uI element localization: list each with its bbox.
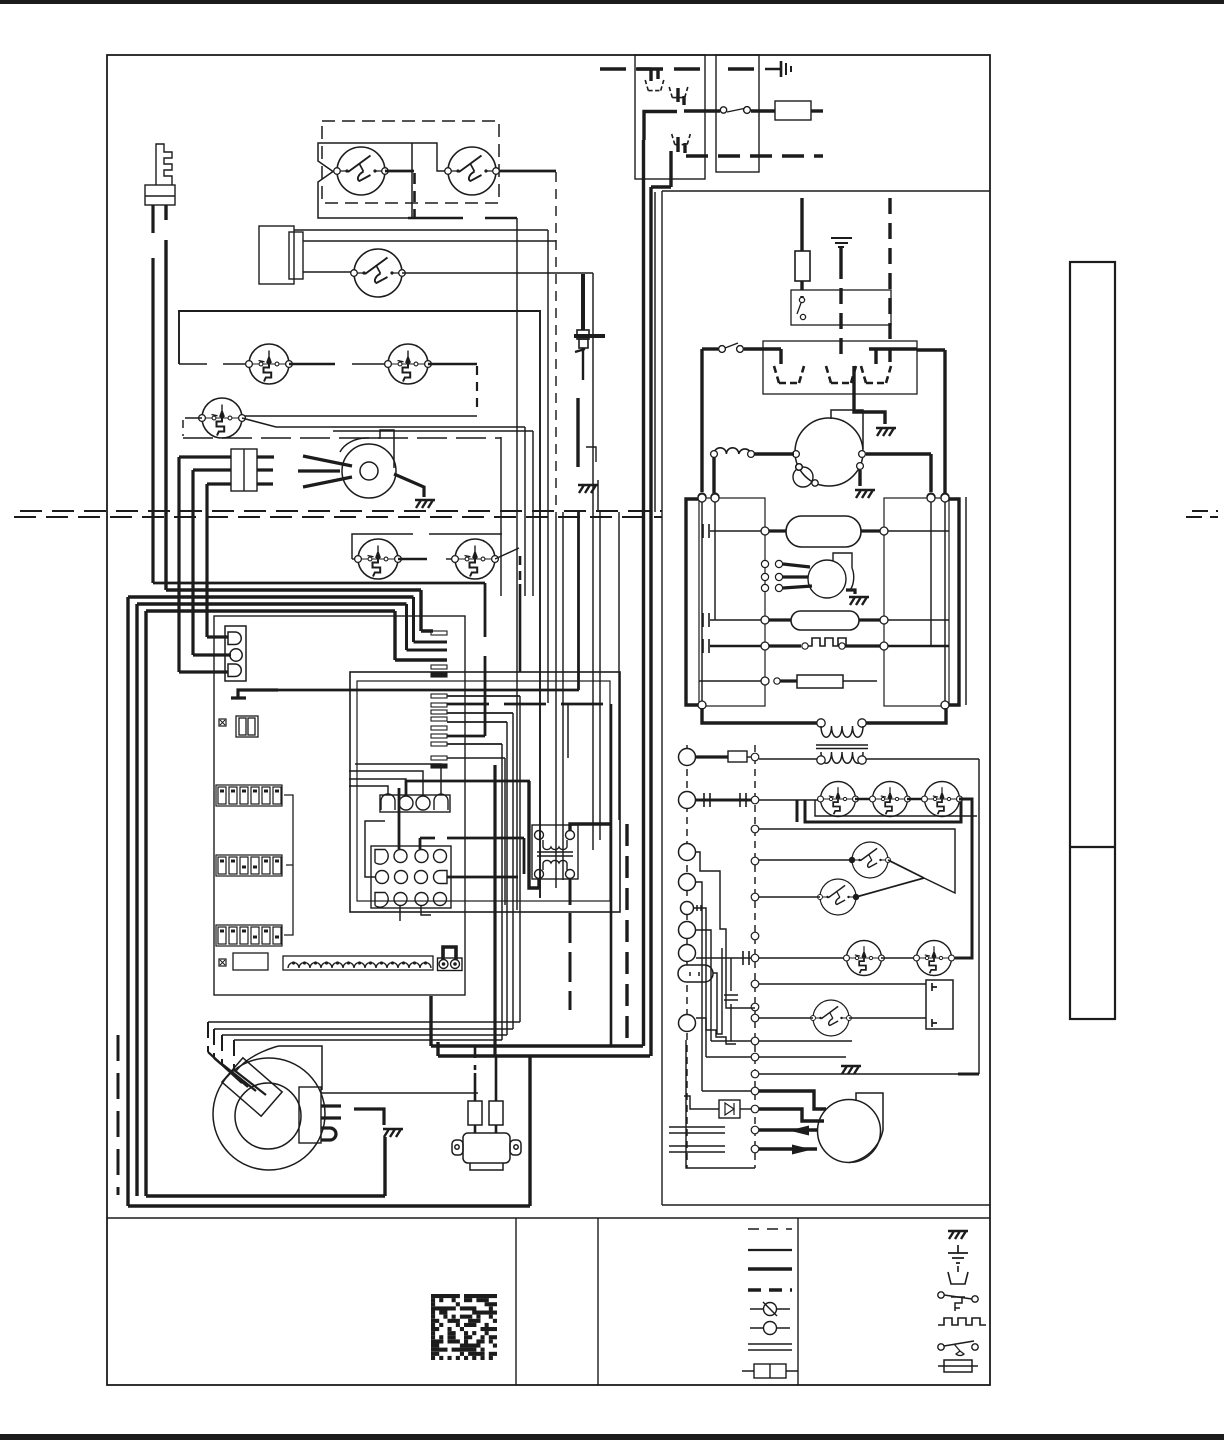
ignition module box (259, 226, 294, 284)
inner nested box (357, 681, 610, 901)
relay contact cup A1 (645, 80, 664, 91)
sensor thick left (769, 618, 791, 621)
bus wire A key1 to board (153, 583, 485, 736)
T2 primary winding (821, 726, 863, 737)
wire y416 return (244, 415, 477, 417)
aux node 2 (774, 678, 780, 684)
dashed drop x414 (413, 173, 416, 218)
pressure switch PS3 (922, 782, 963, 817)
nested thermostat wires t6 (696, 930, 751, 1041)
nested thermostat wire t8 (696, 1018, 736, 1044)
secondary right wire to bus (866, 759, 979, 1074)
x627 dashed drop (625, 824, 628, 1046)
y1074 thick tail (958, 1073, 979, 1076)
IDM2 ground (849, 597, 869, 605)
wire pin y829 (759, 829, 955, 893)
DIP switch bank 2 (216, 855, 282, 876)
bottom bus to transformer (702, 708, 817, 723)
wire pin y1041 (759, 1040, 852, 1042)
thin under line to bus (815, 800, 977, 816)
main limit ML1 (850, 842, 891, 878)
vert bus x505 (504, 758, 506, 905)
arrowhead left (789, 1126, 809, 1136)
3-pin power connector (225, 626, 246, 681)
y69 solid entry segment (636, 67, 651, 70)
sensor line left thin (710, 619, 761, 621)
sensor node right (880, 616, 888, 624)
board pin edge dashed line (754, 745, 756, 1168)
bottom bus L1 (431, 1044, 643, 1047)
nested thin boxes around connector field (350, 672, 620, 912)
long bus on board y690 (243, 689, 579, 692)
plug drop wire 3 (221, 1035, 223, 1064)
HSI line left thin (710, 530, 761, 532)
choke coil (714, 448, 751, 454)
sensor node left (761, 616, 769, 624)
wire term2 w/ conn bars (696, 799, 751, 802)
FP right wire (849, 1017, 926, 1019)
bottom bus L2 (438, 1054, 650, 1057)
top black bar (0, 0, 1224, 4)
ground on y1057 (841, 1066, 861, 1074)
thick riser x385 to bottom bus (383, 1137, 386, 1196)
wire pin y1074 long (759, 1073, 958, 1075)
sensor thick right (859, 618, 880, 621)
igniter fuse F1 (795, 251, 810, 281)
pill marks (690, 972, 699, 976)
limit switch LS2 (385, 344, 432, 384)
diode symbol (725, 1103, 734, 1115)
aux thick lead (780, 679, 797, 682)
blower motor leads (298, 456, 352, 487)
divider right edge stub lower (1186, 516, 1218, 518)
IDM terminals (793, 451, 866, 471)
motor terminal stub 2 (321, 1104, 341, 1107)
L2 riser x530 (528, 1057, 531, 1206)
nested thermostat wires t5 (694, 908, 751, 1057)
left thick bracket (686, 499, 699, 705)
limit row enclosure (179, 311, 540, 898)
pad link y744 (447, 743, 502, 745)
igniter pair wires y1149 (669, 1146, 725, 1152)
aux limit box top (352, 534, 502, 559)
aux box terminal bottom (932, 1019, 937, 1027)
diode left lead (684, 1096, 719, 1109)
wire y431 (333, 431, 533, 596)
junction dot ML2 (853, 894, 859, 900)
inducer motor 2 (small) (808, 553, 854, 598)
inducer motor IDM (795, 410, 863, 486)
door switch S1 (334, 147, 389, 195)
main frame (107, 55, 990, 1385)
cap bars horizontal (724, 995, 738, 1000)
scalloped terminal strip (283, 956, 433, 970)
legend double line (748, 1344, 792, 1350)
P2 col4 thick wire right (447, 876, 518, 879)
nested thermostat wires t3 (696, 852, 755, 1008)
small square LED1 (219, 719, 226, 726)
term2 conn bars b (740, 793, 746, 807)
terminal circle 5 small (681, 902, 694, 915)
door switch enclosure with notch (318, 143, 412, 218)
plug harness horizontal bundle w4 (234, 744, 502, 1040)
motor right wire (866, 454, 931, 492)
bus wire D right drop (407, 604, 448, 650)
connector feed 1 (207, 635, 228, 638)
probe ground tail (597, 480, 599, 512)
motor ground lead (858, 470, 861, 486)
transformer 24V body (452, 1133, 521, 1170)
aux limit switch LS3 (355, 539, 402, 579)
HSI line: conn bars (703, 524, 709, 538)
rollout node left (761, 642, 769, 650)
fuse 1 dashed feed (474, 1046, 477, 1070)
sensor right thin (888, 619, 949, 621)
terminal circle 4 (679, 874, 696, 891)
rollout element conn bars (703, 639, 709, 653)
vert bus x563 (562, 512, 564, 880)
motor terminal stub 3 (321, 1116, 341, 1119)
dashed drop from earth ground (839, 263, 842, 362)
box1 internal thick wire 2 (684, 109, 705, 112)
right tall info rectangle divider (1070, 846, 1115, 848)
nested thermostat wires t4 (696, 882, 751, 1091)
IDM2 lead nodes (761, 560, 782, 591)
vert bus x556 lower (555, 512, 557, 888)
P2 thick feed col2 (398, 788, 401, 849)
AC junction box 2 (716, 55, 759, 172)
wire pin y1018 (759, 1017, 813, 1019)
terminal circle 8 (679, 1015, 696, 1032)
bottom nodes (698, 701, 949, 709)
4-pin connector P1 (380, 794, 450, 812)
LS4 open lever (495, 548, 519, 559)
wire module upper stub (303, 240, 556, 242)
door switch in box2 (720, 107, 750, 114)
T2 secondary winding (821, 752, 863, 763)
dashed drop from LS4 (519, 556, 522, 584)
wire from S2 right (499, 170, 556, 173)
wire pin y1091 thick jog (759, 1091, 826, 1109)
choke left drop (712, 457, 715, 493)
contactor box R2 (763, 341, 917, 394)
rollout node right (880, 642, 888, 650)
legend dashed line (748, 1228, 792, 1230)
legend medium line (748, 1249, 792, 1251)
box L internal verticals (702, 502, 715, 701)
terminal circle 2 (679, 792, 696, 809)
pressure switch PS5 (914, 941, 955, 976)
drop x501 (500, 437, 502, 596)
P2 col3 feed (419, 838, 422, 849)
vert bus x611 thick (610, 704, 613, 1046)
diode box (719, 1100, 740, 1118)
wire pin y897 (759, 896, 820, 898)
bottom bus L1 left riser (429, 996, 432, 1046)
wire LS1-LS2 thin part (352, 363, 388, 365)
aux wire left stub (352, 558, 359, 560)
24V fuse holder 1 (468, 1073, 482, 1133)
LED1 inner dot (220, 720, 225, 725)
resistor to pin (747, 756, 756, 758)
main limit ML2 (818, 879, 859, 915)
link PS2-PS3 (907, 798, 925, 800)
ground blower (415, 500, 435, 508)
legend thick line (748, 1267, 792, 1271)
left frame dashed bus (117, 1035, 120, 1195)
arrowhead right (792, 1145, 812, 1155)
wire pin y1109 thick jog (759, 1109, 824, 1121)
board transformer T1 (532, 825, 578, 879)
motor plug block (rotated) (208, 1052, 282, 1116)
wire to LS1 (179, 363, 245, 365)
wire key-1 (x153 down) (151, 205, 154, 583)
pressure switch PS1 (818, 782, 859, 817)
aux resistor right thin lead (843, 680, 877, 682)
wire LS1-LS2 (289, 363, 335, 366)
thick wire R2 right to x945 (917, 350, 945, 493)
T1 bottom dashed drop (569, 878, 572, 1010)
wire module lower stub (303, 271, 354, 273)
P1 pin2 thick feed (406, 781, 530, 795)
T1 left thick feed (529, 781, 539, 888)
bottom band divider 1 (515, 1218, 517, 1385)
cup2 contact stubs (678, 88, 684, 105)
thick arrow wire y1130 (left arrow) (759, 1128, 817, 1131)
external door switch right (719, 343, 744, 352)
IDM ground (855, 490, 875, 498)
dashed wire y156 (686, 154, 823, 157)
board edge connector pads (431, 631, 447, 768)
rollout thick to element (769, 644, 801, 647)
terminal board dashed line (686, 745, 688, 1168)
aux node (761, 677, 769, 685)
terminal circle 7 (679, 945, 696, 962)
R2 feed 3 thick (869, 349, 917, 364)
pressure switch PS2 (870, 782, 911, 817)
aux resistor line left (699, 680, 761, 682)
rollout switch RS1 (199, 398, 246, 438)
ground below R2 (876, 428, 896, 436)
gas section box R (884, 498, 949, 706)
wire from S3 right (402, 273, 593, 850)
box R internal verticals (931, 502, 945, 701)
wire between door switches (412, 143, 445, 171)
pad link y696 (447, 695, 520, 697)
vert bus x600 (599, 512, 601, 840)
control board outline (214, 616, 465, 995)
motor terminal block (299, 1087, 321, 1143)
rollout right continuation (888, 645, 949, 647)
AC junction box 1 (635, 55, 705, 179)
rollout left dash corner (182, 420, 184, 436)
link PS1-PS2 (855, 798, 873, 800)
legend open circle (750, 1322, 790, 1335)
gas section box L (699, 498, 765, 706)
probe ground (578, 485, 598, 493)
T2 secondary nodes (817, 756, 866, 764)
thin vertical x966 (965, 497, 967, 705)
plug harness horizontal bundle w2 (214, 713, 513, 1029)
F1 bottom dashed lead (800, 281, 803, 298)
interlock switch S3 (351, 249, 406, 297)
thermostat key connector J1 (145, 144, 175, 205)
bus wire C left riser (128, 597, 530, 1206)
pin y800 wire to PS1 (759, 799, 821, 801)
plug harness horizontal bundle w3 (222, 722, 507, 1035)
connector feed 2 (193, 653, 231, 656)
igniter HSI capsule (786, 516, 861, 547)
DIP switch bank 1 (216, 785, 282, 806)
legend chassis ground (948, 1231, 968, 1239)
terminal circle 1 (679, 749, 696, 766)
pad link y713 (447, 712, 513, 714)
dashed wire y437 (183, 437, 501, 439)
HSI node right (880, 527, 888, 535)
HSI wire riser x579 (577, 512, 580, 690)
dashed drop x477 (476, 366, 478, 414)
line fuse resistor box (775, 101, 811, 120)
wire LS3-LS4 thin (446, 558, 455, 560)
term7 conn bars (743, 951, 749, 965)
motor ground (383, 1129, 403, 1137)
thick pair riser right (x650) (649, 187, 652, 1056)
term2 conn bars a (704, 793, 710, 807)
wire pin y861 (759, 859, 852, 861)
wire switch to R2 (744, 347, 763, 350)
interlock relay box R1 (791, 290, 891, 325)
cap lead drop 2 (191, 470, 194, 655)
dashed vertical x890 (888, 198, 891, 362)
relay contact cup A2 (669, 87, 688, 98)
P1 feed wires (349, 764, 441, 795)
box1 internal thick wire (644, 112, 677, 141)
DIP switch bank 3 (216, 925, 282, 946)
vert bus x619 (618, 512, 620, 820)
rollout lever open contact (242, 418, 288, 427)
LS4 drop solid to harness (519, 584, 522, 672)
plug drop wire 4 (233, 1040, 235, 1070)
R2 cup contact 3 (861, 366, 891, 383)
ML2 to vee (856, 878, 924, 897)
wire LS2 right with dashed drop (428, 363, 477, 366)
fuse right stub (811, 109, 823, 112)
pad link y758 (447, 757, 505, 759)
bus wire B key2 to board (166, 590, 433, 631)
wire from motor terminal 1 (341, 1092, 478, 1094)
crenellated element (808, 638, 849, 646)
blower capacitor box divider (243, 449, 245, 491)
vert bus x495 (493, 765, 496, 1057)
LED2 inner dot (220, 960, 225, 965)
wire y230 to bus (294, 230, 548, 703)
link PS4-PS5 (881, 957, 917, 959)
right tall info rectangle (1070, 262, 1115, 1019)
earth ground top middle (831, 238, 852, 263)
pad link y722 (447, 721, 507, 723)
ML1 to vee (888, 860, 924, 878)
cup1 contact stubs (651, 69, 658, 81)
legend crossed circle (750, 1302, 790, 1316)
pad link y704 thick (447, 703, 611, 706)
term5 stub bars (697, 905, 701, 911)
jumper wire (443, 947, 456, 960)
wire choke to motor (754, 452, 794, 455)
wire LS3-LS4 (398, 558, 427, 561)
pressure switch PS4 (844, 941, 885, 976)
flame sensor capsule (791, 611, 859, 630)
dashed drop wire x557 (555, 172, 557, 512)
cup3 contact stubs (678, 137, 685, 153)
wire pin y1057 (759, 1056, 846, 1058)
legend fuse (938, 1360, 978, 1372)
dashed line wire y69 (600, 67, 758, 70)
P2 row2col1 wire (365, 821, 385, 877)
legend heating element (938, 1318, 986, 1325)
cup3 to riser jog (651, 151, 671, 187)
bus wire C right drop (414, 597, 448, 642)
P2 thick dashed jog y838 (420, 838, 524, 874)
dual block component (236, 716, 258, 737)
R2 ground exit (854, 366, 885, 424)
IDM2 leads (783, 564, 812, 588)
motor hook terminal (321, 1128, 336, 1140)
R resistor top (728, 751, 747, 762)
diode right lead (740, 1108, 751, 1110)
dashed wire from RS1 left (185, 417, 202, 419)
extra drop at x797 (796, 800, 799, 822)
dashed interlock box (322, 121, 499, 203)
F1 top lead (800, 198, 803, 251)
element node right (839, 643, 845, 649)
flame probe circle FP (811, 1000, 852, 1036)
secondary left wire (759, 758, 817, 760)
limit switch LS1 (246, 344, 293, 384)
T2 core (816, 745, 868, 749)
12-pin connector P2 (371, 846, 451, 908)
vertical cap wire x731 (730, 958, 732, 1041)
divider dashed line lower (14, 516, 662, 518)
legend fuse block (742, 1364, 798, 1378)
drop x568 to T1 (567, 704, 569, 758)
flame probe assembly (574, 274, 605, 467)
IDM2 ground lead (846, 590, 855, 594)
cap lead drop 1 (177, 457, 180, 672)
thick under-run bus below PS chain (805, 800, 961, 822)
earth ground rotated at line end (765, 61, 791, 77)
thick arrow wire y1149 (right arrow) (759, 1147, 817, 1150)
bottom black bar (0, 1434, 1224, 1440)
thick jog to ground (354, 1109, 384, 1125)
wire to switch (702, 347, 718, 350)
plug drop wires dashed (207, 1022, 209, 1052)
small square LED2 (219, 959, 226, 966)
nodes on section line (698, 493, 949, 501)
bottom bus L2 left riser (436, 1042, 439, 1056)
relay block K1 (233, 953, 268, 970)
right section enclosure (662, 191, 990, 1205)
ignition module inner plate (289, 232, 303, 279)
bottom band divider 3 (797, 1218, 799, 1385)
connector feed 3 (179, 670, 228, 673)
wire from S1 right contact (385, 170, 414, 173)
rollout thick right (845, 644, 880, 647)
polarity mark (231, 690, 278, 698)
R2 cup contact 1 (774, 366, 804, 383)
terminal circle 6 (679, 922, 696, 939)
wire term7 w/ bars (696, 957, 751, 959)
divider right edge stub upper (1192, 510, 1218, 512)
